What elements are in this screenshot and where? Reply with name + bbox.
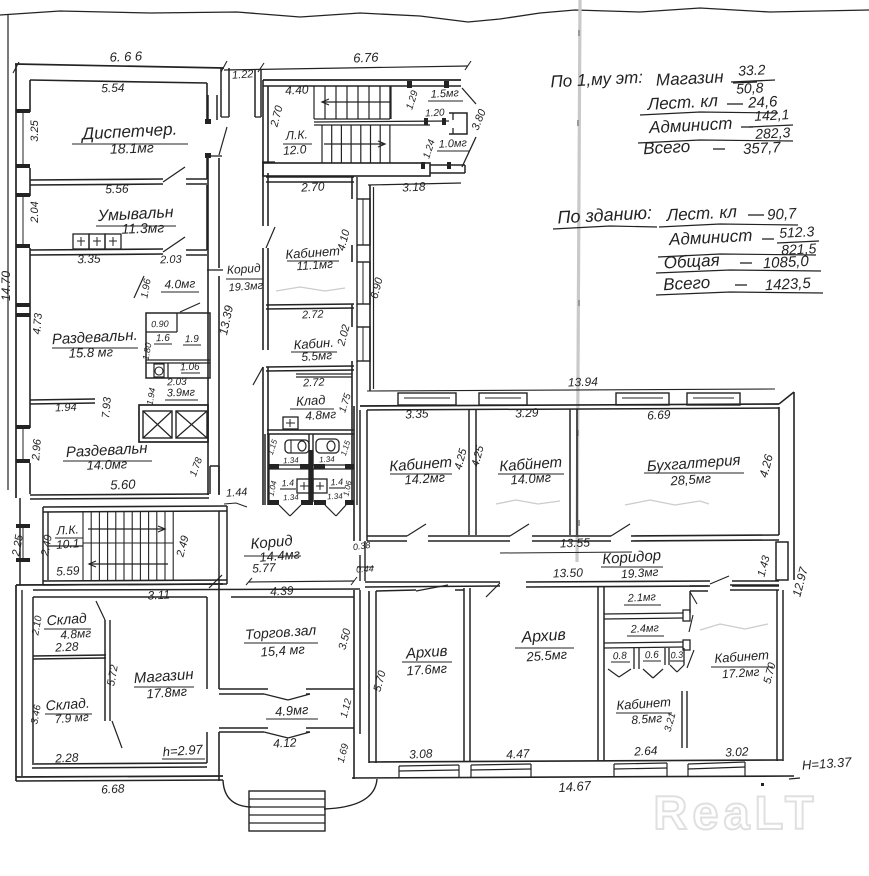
- summary line4 Vsego: [643, 137, 782, 158]
- outer wall at LK: [19, 498, 21, 585]
- dim 1.69 rotated: [336, 742, 352, 764]
- Umyvaln bottom wall: [30, 249, 163, 255]
- label 4.0m2: [161, 276, 199, 292]
- dim 2.70: [300, 179, 325, 194]
- stair flight1 risers: [314, 86, 391, 119]
- window bump 4: [687, 393, 740, 405]
- svg-text:1.4: 1.4: [330, 477, 343, 488]
- radiator tick left wall: [16, 303, 30, 317]
- svg-text:14.0мг: 14.0мг: [86, 456, 128, 472]
- closet divider 2: [146, 360, 210, 363]
- dim text 6.76: [353, 50, 380, 66]
- room area 14.2: [404, 470, 446, 488]
- toilet mid sill blocks: [268, 464, 354, 469]
- svg-text:5.60: 5.60: [110, 477, 137, 493]
- svg-text:0.6: 0.6: [645, 650, 660, 662]
- svg-text:2.64: 2.64: [633, 743, 658, 758]
- svg-text:2.72: 2.72: [301, 308, 324, 321]
- svg-text:Общая: Общая: [663, 251, 720, 273]
- summary line1 Po 1mu et: [550, 68, 644, 92]
- summary line1 Magazin: [655, 67, 757, 90]
- stair block left wall: [263, 80, 268, 163]
- corridor area 14.4: [259, 546, 301, 565]
- svg-text:Магазин: Магазин: [655, 67, 724, 90]
- dim 3.18: [402, 179, 426, 194]
- svg-text:11.3мг: 11.3мг: [121, 219, 164, 236]
- stair label LK 10.1: [55, 522, 83, 552]
- summary line2 Lest.kl: [640, 91, 778, 115]
- corridor corner ticks: [207, 156, 223, 270]
- room label Dispetcher: [72, 120, 188, 144]
- bottom-left top inner walls: [33, 589, 360, 597]
- wall stub right: [210, 466, 219, 494]
- Kabinet column right wall: [352, 177, 357, 505]
- room area 7.9: [54, 710, 89, 726]
- svg-text:7.9 мг: 7.9 мг: [54, 710, 89, 726]
- dim 5.59: [56, 563, 80, 578]
- scan left border line: [7, 14, 9, 490]
- corridor area 19.3: [228, 280, 264, 294]
- dim line 3.18: [368, 183, 461, 185]
- stair block top wall: [263, 80, 461, 86]
- partition 5.5/Klad: [266, 366, 354, 371]
- cell divider 2: [604, 640, 690, 650]
- dim 4.10 rotated: [336, 227, 353, 252]
- room area 28.5: [669, 471, 712, 489]
- svg-text:6. 6 6: 6. 6 6: [109, 48, 143, 64]
- svg-text:8.5мг: 8.5мг: [631, 711, 663, 727]
- dim 2.49 rotated right: [174, 534, 191, 559]
- room area 18.1: [110, 139, 154, 157]
- cell right door diags: [687, 592, 697, 668]
- svg-text:3.9мг: 3.9мг: [167, 386, 196, 399]
- Dispetcher right wall: [205, 83, 211, 179]
- dim 3.80 rotated: [470, 107, 489, 132]
- door diag Kabinet11: [266, 227, 275, 248]
- cell divider 1: [604, 610, 690, 621]
- svg-text:15.8 мг: 15.8 мг: [68, 344, 113, 361]
- room area 17.2: [722, 665, 760, 682]
- svg-text:11.1мг: 11.1мг: [296, 257, 334, 274]
- svg-text:6.68: 6.68: [101, 781, 125, 796]
- svg-text:14.67: 14.67: [558, 778, 592, 795]
- room area 17.8: [146, 684, 188, 702]
- room label Arhiv 17.6: [402, 643, 452, 663]
- dim 3.21 rotated: [663, 712, 679, 734]
- room label Kabinet 11.1: [285, 243, 341, 262]
- inner top wall: [30, 80, 207, 83]
- svg-text:1.22: 1.22: [232, 68, 254, 81]
- toilet sink left: [297, 479, 312, 493]
- dim 1.96 rotated: [139, 278, 153, 300]
- dim 4.73 rotated: [31, 312, 45, 335]
- room area 14.0: [510, 470, 552, 488]
- stair flight2 arrow: [324, 141, 385, 147]
- magazin left wall: [105, 620, 110, 721]
- summary2 line3 Obshchaya: [656, 251, 821, 273]
- LK arrow down: [89, 561, 168, 567]
- dim 1.44: [224, 486, 248, 507]
- outer left wall: [15, 64, 17, 498]
- wall right of arhiv25: [598, 586, 604, 761]
- dim text 1.22: [232, 68, 254, 81]
- dim 3.35 r: [405, 406, 429, 421]
- dim 5.54: [101, 81, 125, 96]
- svg-text:1085,0: 1085,0: [762, 253, 809, 272]
- porch bracket 1.20: [449, 113, 467, 134]
- door diag 14.2: [407, 524, 426, 536]
- porch railing left: [223, 780, 251, 807]
- corridor area 19.3b: [621, 565, 659, 582]
- dim 2.04 rotated: [29, 201, 41, 223]
- closet divider 3: [167, 363, 169, 378]
- dim 13.39 rotated: [216, 304, 236, 337]
- room area 8.5: [631, 711, 663, 727]
- svg-text:1.34: 1.34: [319, 455, 336, 465]
- wall stub right of door: [186, 179, 207, 184]
- svg-text:28,5мг: 28,5мг: [669, 471, 712, 489]
- entrance passage right jamb: [255, 70, 261, 117]
- magazin bottom wall: [32, 763, 207, 768]
- courtyard west wall: [370, 185, 374, 391]
- svg-text:Л.К.: Л.К.: [284, 127, 308, 143]
- corner tick bottom right: [789, 778, 800, 779]
- toilet door chevrons: [279, 505, 346, 516]
- entrance passage left jamb: [221, 68, 229, 117]
- svg-text:357,7: 357,7: [743, 139, 782, 158]
- bottom wall right block outer: [352, 776, 794, 778]
- dim 0.44: [356, 564, 374, 575]
- svg-text:0.3: 0.3: [670, 650, 683, 661]
- toilets top wall: [267, 430, 354, 434]
- svg-text:3.35: 3.35: [77, 252, 101, 267]
- dim 4.39: [270, 583, 294, 598]
- cell door chevrons: [608, 665, 684, 678]
- summary line3 Administ: [648, 114, 753, 137]
- window W3 sills: [16, 425, 30, 463]
- svg-text:Корид: Корид: [226, 261, 261, 277]
- dim ticks 6.66: [13, 61, 227, 73]
- elevator cell left: [143, 411, 172, 438]
- Kabinet11 top wall: [266, 177, 354, 182]
- svg-text:33.2: 33.2: [738, 61, 766, 78]
- kab17 right wall: [777, 590, 783, 761]
- stray dot: [761, 783, 764, 786]
- porch bottom band: [430, 165, 465, 173]
- elevator cell right: [176, 411, 207, 438]
- closet boiler: [154, 364, 164, 377]
- LK arrow up: [88, 526, 165, 532]
- dim 12.97 rotated: [789, 564, 811, 598]
- corridor right wall lines: [263, 162, 268, 505]
- dim text 6.66: [109, 48, 143, 64]
- svg-text:3.08: 3.08: [409, 746, 433, 761]
- bottom outer wall left: [16, 776, 223, 781]
- svg-text:25.5мг: 25.5мг: [525, 647, 568, 665]
- corridor bottom wall right: [365, 581, 779, 587]
- window W4 sills: [16, 524, 30, 562]
- corridor right wall top tick: [262, 161, 275, 163]
- porch steps: [249, 791, 325, 831]
- svg-text:1.0мг: 1.0мг: [438, 137, 467, 150]
- svg-text:1.44: 1.44: [226, 486, 248, 499]
- svg-text:2.03: 2.03: [159, 254, 183, 267]
- svg-text:2.4мг: 2.4мг: [629, 622, 659, 636]
- dim 3.50 rotated: [337, 626, 354, 651]
- room label Klad: [290, 392, 334, 409]
- dim 4.40: [285, 82, 309, 97]
- dim 6.90 rotated: [369, 275, 386, 300]
- main cross wall: [354, 406, 367, 541]
- dim 3.25 rotated: [29, 119, 41, 141]
- svg-text:0.8: 0.8: [613, 651, 628, 663]
- closet label 1.80 rot: [141, 342, 154, 361]
- window sill b2: [471, 764, 531, 778]
- partition 15.8/14.0: [30, 399, 95, 404]
- svg-text:Лест. кл: Лест. кл: [665, 202, 738, 225]
- cell 2.1 label: [624, 591, 661, 605]
- dim 14.67: [558, 778, 592, 795]
- room label Magazin: [133, 666, 194, 687]
- dim 2.49 rotated left: [39, 534, 55, 558]
- small cells dividers: [634, 648, 684, 669]
- Umyvaln right wall: [206, 185, 208, 250]
- dim 2.28 a: [54, 639, 79, 654]
- dim 5.70 rotated right: [762, 660, 779, 685]
- svg-text:18.1мг: 18.1мг: [110, 139, 154, 157]
- door diag 14.0: [510, 524, 529, 536]
- cell 2.4 label: [627, 622, 664, 636]
- svg-text:2.72: 2.72: [302, 376, 325, 389]
- door diag into kab17: [710, 576, 729, 584]
- dim 3.02: [725, 744, 749, 759]
- door diag korid-magazin: [209, 575, 222, 588]
- dim 5.72 rotated: [105, 664, 121, 687]
- kab85 right wall: [682, 691, 687, 748]
- inner left wall bottom: [32, 597, 34, 763]
- dim 13.55: [500, 535, 632, 553]
- corridor upper left wall: [208, 95, 217, 120]
- dim 3.11: [147, 587, 170, 602]
- svg-text:0.90: 0.90: [151, 319, 169, 330]
- door diag arhiv17: [416, 585, 448, 591]
- LK block top wall: [43, 506, 227, 512]
- svg-text:3.35: 3.35: [405, 406, 429, 421]
- room label Arhiv 25.5: [515, 626, 574, 648]
- Realt watermark: [653, 786, 818, 839]
- svg-text:17.8мг: 17.8мг: [146, 684, 188, 702]
- summary frac 33.2: [731, 61, 775, 96]
- svg-text:3.29: 3.29: [515, 405, 539, 420]
- toilet labels 1.15: [266, 438, 353, 457]
- dim 0.38: [352, 540, 371, 552]
- svg-text:1.9: 1.9: [185, 334, 200, 345]
- dim 2.96 rotated: [30, 438, 44, 462]
- toilets outer walls: [265, 434, 269, 505]
- dim 5.77: [252, 560, 277, 575]
- svg-text:13.50: 13.50: [553, 565, 584, 580]
- dim 6.69: [647, 407, 671, 422]
- svg-text:2.28: 2.28: [54, 639, 79, 654]
- toilet labels 1.34 lower: [283, 492, 344, 503]
- Dispetcher bottom wall: [30, 179, 163, 185]
- toilet mid partition lines: [269, 465, 354, 469]
- stair flight2 risers: [322, 125, 390, 163]
- sklad partition: [33, 655, 106, 659]
- svg-text:5.5мг: 5.5мг: [301, 348, 333, 364]
- svg-text:14.0мг: 14.0мг: [510, 470, 552, 488]
- elevator shaft box: [139, 405, 208, 442]
- door diagonal Razdevaln: [134, 276, 144, 298]
- svg-text:4.0мг: 4.0мг: [164, 276, 195, 291]
- svg-text:13.55: 13.55: [560, 535, 591, 550]
- svg-text:14.2мг: 14.2мг: [404, 470, 446, 488]
- room label Kabinet 8.5: [616, 694, 672, 713]
- svg-text:5.59: 5.59: [56, 563, 80, 578]
- svg-text:2.70: 2.70: [300, 179, 325, 194]
- room area 11.1: [296, 257, 334, 274]
- stair block bottom wall band: [263, 163, 430, 176]
- dim 2.03: [159, 254, 183, 267]
- toilet bottom sills: [268, 500, 354, 505]
- dim 6.68: [101, 781, 125, 796]
- top right corner diag: [779, 392, 794, 404]
- LK block left wall: [43, 507, 48, 584]
- closet box: [146, 313, 210, 378]
- dim 1.43 rotated: [756, 553, 773, 578]
- svg-text:ReaLT: ReaLT: [653, 786, 818, 839]
- porch 1.5 label: [428, 87, 463, 101]
- window sill b4: [688, 762, 745, 777]
- bottom wall right block inner: [369, 760, 783, 762]
- door diag buhg: [611, 524, 630, 536]
- svg-text:19.3мг: 19.3мг: [228, 280, 264, 294]
- room area 5.5: [301, 348, 333, 364]
- toilet WC right: [316, 439, 339, 453]
- torgzal right wall: [354, 590, 360, 779]
- closet door diag: [180, 303, 200, 312]
- wall arhiv/arhiv: [464, 588, 470, 761]
- passage bottom wall: [219, 728, 354, 738]
- window W1 sills: [16, 109, 30, 168]
- summary2 line1 Lest: [659, 202, 798, 227]
- passage top wall: [219, 689, 354, 700]
- svg-text:Склад: Склад: [46, 610, 87, 629]
- crease speckles: [577, 30, 580, 526]
- svg-text:17.2мг: 17.2мг: [722, 665, 760, 682]
- wall stub: [186, 250, 207, 255]
- svg-text:Клад: Клад: [295, 392, 325, 409]
- room area 11.3: [121, 219, 164, 236]
- room area 14.0: [86, 456, 128, 472]
- porch jamb marks: [407, 81, 451, 169]
- corridor door diagonal top: [219, 127, 227, 155]
- dim 1.24 rotated: [421, 138, 438, 160]
- room area 15.8: [68, 344, 113, 361]
- summary frac 142.1: [638, 106, 793, 143]
- right wing top wall: [360, 404, 779, 410]
- torgzal area 15.4: [260, 641, 306, 659]
- dim 2.10 rotated: [30, 615, 44, 637]
- magazin door diag top: [96, 601, 105, 620]
- svg-text:4.73: 4.73: [31, 312, 45, 335]
- svg-text:17.6мг: 17.6мг: [406, 661, 448, 679]
- toilet labels 1.04 1.06: [267, 479, 354, 497]
- dim line 5.77/4.39: [246, 577, 357, 585]
- outer top wall: [15, 64, 224, 68]
- closet labels 1.6 1.9: [154, 333, 201, 345]
- Umyvaln door diagonal: [163, 237, 185, 252]
- svg-text:1423,5: 1423,5: [764, 275, 811, 294]
- svg-text:6.76: 6.76: [353, 50, 380, 66]
- svg-text:19.3мг: 19.3мг: [621, 565, 659, 582]
- room label Kabinet 14.0: [498, 454, 564, 475]
- dim 1.12 rotated: [339, 697, 355, 719]
- svg-text:1.5мг: 1.5мг: [430, 87, 459, 100]
- room area 17.6: [406, 661, 448, 679]
- room label Razdevaln-1: [51, 327, 138, 348]
- toilet sink right: [313, 479, 327, 493]
- dim 4.26 rotated: [756, 453, 776, 479]
- window box 6.90: [357, 262, 370, 304]
- window bump 3: [616, 393, 669, 405]
- arhiv block left wall: [369, 591, 376, 763]
- summary2 line4 Vsego: [656, 273, 823, 295]
- svg-text:1.34: 1.34: [283, 456, 300, 466]
- svg-text:4.40: 4.40: [285, 82, 309, 97]
- summary2 line1 Po zdaniyu: [553, 203, 657, 229]
- ghost text k14: [496, 500, 560, 504]
- dim 1.78 rotated: [188, 456, 205, 478]
- svg-text:2.96: 2.96: [30, 438, 44, 462]
- svg-text:Всего: Всего: [643, 137, 691, 158]
- ghost text k17: [700, 624, 768, 630]
- dim 7.93 rotated: [100, 396, 114, 419]
- inner right wall: [778, 407, 780, 535]
- scan paper top edge: [0, 8, 869, 22]
- closet label 1.06: [180, 362, 200, 374]
- Dispetcher door diagonal: [163, 167, 185, 182]
- dim 2.72 b: [302, 376, 325, 389]
- ghost text k11: [276, 287, 345, 291]
- corridor label Korid 14.4: [244, 532, 301, 556]
- svg-text:142,1: 142,1: [754, 106, 790, 124]
- magazin door diag bottom: [112, 721, 122, 748]
- toilets middle partition: [309, 434, 313, 502]
- svg-text:1.6: 1.6: [156, 333, 171, 344]
- window sill b3: [614, 763, 667, 777]
- door diag into arhiv: [486, 583, 500, 597]
- LK landing line: [48, 543, 173, 546]
- svg-text:1.06: 1.06: [180, 362, 200, 374]
- svg-text:6.69: 6.69: [647, 407, 671, 422]
- dim 1.20: [425, 107, 445, 119]
- inner left wall segments: [29, 80, 31, 494]
- dim 1.29 rotated: [404, 89, 421, 111]
- dim line 13.94: [367, 374, 775, 391]
- svg-text:Всего: Всего: [663, 273, 711, 294]
- stair right boundary: [389, 86, 391, 119]
- svg-text:1.20: 1.20: [425, 107, 445, 119]
- dim 4.25 rot a: [453, 446, 470, 471]
- kab17 top wall: [690, 585, 779, 591]
- dim 1.94: [55, 402, 77, 415]
- kab17 left wall upper: [689, 591, 691, 613]
- room area 25.5: [525, 647, 568, 665]
- room area 4.8b: [60, 626, 92, 642]
- room label Sklad 4.8: [44, 610, 91, 629]
- window box 4.10: [357, 199, 370, 245]
